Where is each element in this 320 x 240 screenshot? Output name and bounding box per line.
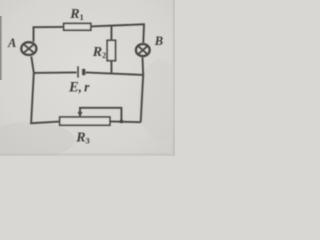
wire: rheostat wiper link (up, right, down to bottom wire) [80,108,121,122]
svg-text:A: A [7,36,16,50]
scan artifact: bottom edge shading [0,153,175,156]
battery E,r : long thin plate [77,66,79,77]
wire: right vertical lamp B bottom through tee to bottom-right corner [141,57,144,122]
battery E,r : short thick plate [82,69,85,75]
wire: R2 bottom leg to middle wire [110,61,112,73]
wire: middle wire battery to right vertical [85,72,143,75]
wire: top-left corner to R1 left [34,27,64,42]
wire: bottom wire from R3 right to bottom-right corner [110,120,141,123]
junction dot at wiper link and bottom wire [120,120,123,123]
wire: middle wire left segment to battery [34,71,77,74]
resistor R2 [107,40,115,60]
wire: left vertical tee down to bottom-left corner [31,73,60,123]
resistor R3 (rheostat) [60,117,110,125]
wire: left vertical below lamp A to middle-wire tee [31,56,34,73]
svg-text:E,r: E,r [68,80,90,96]
scan artifact: right edge shading [173,0,175,156]
rheostat wiper arrowhead [78,112,83,117]
svg-text:B: B [154,34,163,48]
wire: R1 right to top-right corner down to lamp B top [91,24,144,43]
lamp B [136,44,150,56]
wire: R2 branch from top wire [110,25,112,40]
lamp A [21,42,36,55]
paper background [0,0,175,156]
resistor R1 [64,23,91,30]
scan artifact: left edge dark streak [0,16,3,80]
